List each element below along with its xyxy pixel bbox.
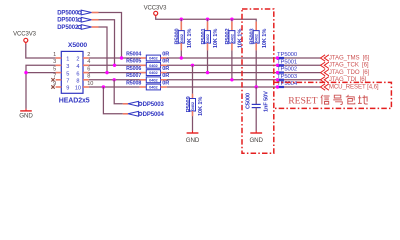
pin stub of DP5000 <box>92 12 99 14</box>
svg-text:GND: GND <box>249 137 263 144</box>
svg-text:0R: 0R <box>162 80 169 86</box>
svg-text:10K 1%: 10K 1% <box>262 29 268 48</box>
svg-text:6: 6 <box>87 66 90 72</box>
junction R5009 at TCK net <box>191 64 194 67</box>
svg-text:DP5001: DP5001 <box>57 18 79 24</box>
svg-text:0402: 0402 <box>205 33 210 42</box>
svg-text:9: 9 <box>66 86 69 92</box>
svg-text:R5006: R5006 <box>126 66 141 72</box>
svg-text:1: 1 <box>53 52 56 58</box>
wire pin6 row to R5006 <box>89 72 140 74</box>
svg-text:0R: 0R <box>162 73 169 79</box>
svg-text:0402: 0402 <box>190 101 195 110</box>
junction DP5000 net <box>120 56 123 59</box>
resistor R5002 body 0402 <box>229 22 235 51</box>
svg-text:0402: 0402 <box>229 33 234 42</box>
resistor R5009 body 0402 <box>190 94 196 116</box>
svg-text:0402: 0402 <box>149 85 158 90</box>
svg-text:1nF 50V: 1nF 50V <box>263 91 269 112</box>
svg-text:TP5001: TP5001 <box>277 59 297 65</box>
power symbol VCC3V3 (left) <box>13 32 37 45</box>
wire pin2 row to R5004 <box>89 57 140 59</box>
svg-text:3: 3 <box>66 64 69 70</box>
resistor R5005 body 0402 <box>140 62 167 68</box>
resistor R5004 body 0402 <box>140 55 167 61</box>
pin stub of DP5001 <box>92 19 99 21</box>
svg-text:R5004: R5004 <box>126 51 141 57</box>
off-page connector DP5000 <box>57 10 91 16</box>
off-page connector DP5004 <box>128 111 164 117</box>
test point TP5003 <box>276 74 298 82</box>
svg-text:0R: 0R <box>162 66 169 72</box>
svg-text:RESET: RESET <box>288 95 317 106</box>
off-page chevron JTAG_TMS <box>321 55 329 61</box>
svg-text:10: 10 <box>87 81 93 87</box>
wire VCC3V3 rail to R5003 <box>156 17 257 22</box>
svg-text:X5000: X5000 <box>68 42 87 49</box>
junction R5003/C5000 at MCU_RESET net <box>255 85 258 88</box>
svg-text:2: 2 <box>87 52 90 58</box>
wire net row 6 to off-page <box>167 72 321 74</box>
pin stubs left (pins 1,3,5,7,9) <box>56 58 62 87</box>
junction rail at R5000 <box>180 18 183 21</box>
svg-text:5: 5 <box>53 66 56 72</box>
ground GND (left) <box>19 109 33 120</box>
off-page chevron JTAG_TDI <box>321 77 329 83</box>
svg-text:R5007: R5007 <box>126 73 141 79</box>
svg-text:DP5004: DP5004 <box>143 112 165 118</box>
svg-text:DP5003: DP5003 <box>143 102 165 108</box>
off-page connector DP5003 <box>128 101 164 107</box>
svg-text:VCC3V3: VCC3V3 <box>13 32 37 38</box>
svg-text:GND: GND <box>19 112 33 119</box>
resistor R5000 body 0402 <box>178 22 184 51</box>
wire C5000 to ground <box>255 108 257 131</box>
off-page chevron JTAG_TDO <box>321 69 329 75</box>
off-page chevron JTAG_TCK <box>321 62 329 68</box>
svg-text:JTAG_TCK [6]: JTAG_TCK [6] <box>329 62 369 69</box>
test point TP5001 <box>276 59 297 67</box>
junction on pin5 wire <box>24 71 27 74</box>
capacitor C5000 body <box>252 104 261 107</box>
wire net row 10 to off-page <box>167 86 321 88</box>
svg-text:TP5003: TP5003 <box>277 74 298 80</box>
wire pin row down to DP5004 <box>103 87 122 114</box>
svg-text:1: 1 <box>66 57 69 63</box>
ground GND (under C5000) <box>249 131 263 145</box>
svg-text:2: 2 <box>76 57 79 63</box>
wire rail to R5001 <box>207 19 209 21</box>
no-connect X on pin 7 <box>51 78 54 81</box>
junction R5002 at net row <box>230 78 233 81</box>
pin stubs right (pins 2,4,6,8,10) <box>83 58 89 87</box>
svg-text:GND: GND <box>186 137 200 144</box>
svg-text:3: 3 <box>53 59 56 65</box>
wire R5001 to net row <box>207 50 209 72</box>
svg-text:0402: 0402 <box>149 70 158 75</box>
junction to DP5004 <box>102 85 105 88</box>
wire VCC3V3 to pin 1 <box>26 44 56 58</box>
off-page connector DP5002 <box>57 25 91 31</box>
svg-text:0402: 0402 <box>179 33 184 42</box>
wire R5000 to net row <box>180 50 182 58</box>
resistor R5007 body 0402 <box>140 77 167 83</box>
junction DP5001 net <box>113 64 116 67</box>
svg-text:4: 4 <box>87 59 90 65</box>
svg-text:0402: 0402 <box>149 63 158 68</box>
resistor R5003 body 0402 <box>253 22 259 51</box>
ground GND (under R5009) <box>186 131 200 145</box>
svg-text:4: 4 <box>76 64 79 70</box>
wire pin8 row to R5007 <box>89 79 140 81</box>
svg-text:6: 6 <box>76 71 79 77</box>
test point TP5000 <box>276 52 298 60</box>
svg-text:HEAD2x5: HEAD2x5 <box>59 97 90 104</box>
svg-text:0R: 0R <box>162 51 169 57</box>
svg-text:10K 1%: 10K 1% <box>213 29 219 48</box>
RESET shielding dashed outline (label box) <box>274 82 392 108</box>
wire DP5000 to pin row <box>99 13 122 59</box>
test point TP5004 <box>276 81 298 89</box>
svg-text:8: 8 <box>87 74 90 80</box>
svg-text:JTAG_TDO [6]: JTAG_TDO [6] <box>329 69 370 76</box>
pin stub of DP5002 <box>92 26 99 28</box>
resistor R5008 body 0402 <box>140 84 167 90</box>
wire pin 5 branch <box>26 72 56 74</box>
off-page connector DP5001 <box>57 17 91 23</box>
connector X5000 body HEAD2x5 <box>61 51 83 93</box>
svg-text:TP5000: TP5000 <box>277 52 298 58</box>
pin numbers 2,4,6,8,10 <box>87 52 93 87</box>
wire pin10 row to R5008 <box>89 86 140 88</box>
wire DP5002 to pin row <box>99 27 108 73</box>
off-page chevron MCU_RESET <box>321 84 329 90</box>
svg-text:10K 1%: 10K 1% <box>187 29 193 48</box>
resistor R5001 body 0402 <box>205 22 211 51</box>
test point TP5002 <box>276 67 297 75</box>
wire R5002 to net row <box>231 50 233 79</box>
pin stub of DP5003 <box>123 103 128 105</box>
svg-text:0R: 0R <box>162 59 169 65</box>
svg-text:5: 5 <box>66 71 69 77</box>
svg-text:0402: 0402 <box>149 77 158 82</box>
wire MCU_RESET net down to C5000 <box>255 87 257 104</box>
power symbol VCC3V3 (top middle) <box>144 5 168 17</box>
svg-text:MCU_RESET [4,6]: MCU_RESET [4,6] <box>329 83 379 90</box>
annotation text RESET signal shield <box>288 95 367 107</box>
junction to DP5003 <box>113 78 116 81</box>
wire net row 8 to off-page <box>167 79 321 81</box>
resistor R5006 body 0402 <box>140 70 167 76</box>
wire TCK net down to R5009 <box>192 65 194 94</box>
junction DP5002 net <box>105 71 108 74</box>
svg-text:JTAG_TMS [6]: JTAG_TMS [6] <box>329 54 370 61</box>
svg-text:0402: 0402 <box>254 33 259 42</box>
svg-text:0402: 0402 <box>149 56 158 61</box>
svg-text:C5000: C5000 <box>246 93 252 109</box>
wire R5009 to ground <box>192 116 194 131</box>
wire rail to R5002 <box>231 19 233 21</box>
junction rail at R5002 <box>230 18 233 21</box>
svg-text:DP5000: DP5000 <box>57 10 79 16</box>
svg-text:DP5002: DP5002 <box>57 25 79 31</box>
junction rail at R5001 <box>206 18 209 21</box>
RESET shielding dashed outline (column) <box>242 9 274 153</box>
wire R5003 down to MCU_RESET net <box>255 50 257 87</box>
junction R5000 at net row <box>180 56 183 59</box>
wire pin4 row to R5005 <box>89 64 140 66</box>
svg-text:10: 10 <box>75 86 81 92</box>
wire net row 4 to off-page <box>167 64 321 66</box>
wire pin 3 to GND rail <box>26 65 56 109</box>
wire net row 2 to off-page <box>167 57 321 59</box>
no-connect X on pin 9 <box>51 85 54 88</box>
svg-text:8: 8 <box>76 79 79 85</box>
svg-text:VCC3V3: VCC3V3 <box>144 5 168 11</box>
svg-text:10K 1%: 10K 1% <box>198 97 204 116</box>
svg-text:TP5002: TP5002 <box>277 67 297 73</box>
svg-text:R5005: R5005 <box>126 59 141 65</box>
junction R5001 at net row <box>206 71 209 74</box>
pin numbers 1,3,5,7,9 <box>53 52 56 87</box>
svg-text:R5008: R5008 <box>126 80 141 86</box>
wire rail to R5000 <box>180 19 182 21</box>
wire pin row down to DP5003 <box>114 80 123 104</box>
svg-text:7: 7 <box>66 79 69 85</box>
pin stub of DP5004 <box>123 113 128 115</box>
wire DP5001 to pin row <box>99 20 115 66</box>
